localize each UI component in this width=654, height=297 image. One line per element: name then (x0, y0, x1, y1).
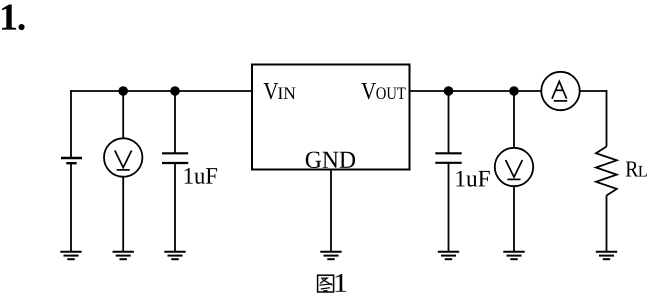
voltmeter V1 glyph V (115, 151, 132, 170)
node: input rail / capacitor C1 junction (170, 86, 180, 96)
capacitor C2 plates (435, 152, 461, 154)
ground (voltmeter V2) (503, 252, 524, 260)
resistor RL zigzag (596, 147, 617, 196)
pin label VIN (264, 83, 279, 99)
ground (capacitor C1) (164, 252, 185, 260)
problem number label "1." (2, 5, 16, 30)
wire: ammeter to top-right corner (581, 90, 608, 92)
ammeter A1 body (541, 72, 579, 110)
voltmeter V2 glyph V (506, 160, 523, 179)
value label 1uF (C1) (185, 168, 217, 184)
wire: resistor RL to ground (606, 196, 608, 253)
wire: capacitor C1 to ground (174, 163, 176, 252)
battery B1 wires (70, 90, 72, 157)
regulator U1 body (252, 65, 410, 170)
ammeter A1 glyph A (552, 81, 567, 101)
wire: main input rail (70, 90, 252, 92)
wire: junction to voltmeter V2 (513, 91, 515, 148)
node: output rail / capacitor C2 junction (444, 86, 454, 96)
voltmeter V2 body (495, 148, 533, 186)
wire: junction to capacitor C2 (448, 91, 450, 153)
wire: junction to voltmeter V1 (122, 91, 124, 138)
ground (resistor RL) (596, 252, 617, 260)
ground (regulator GND) (320, 252, 341, 260)
wire: corner down to resistor RL (606, 90, 608, 146)
node: input rail / voltmeter V1 junction (118, 86, 128, 96)
battery B1 plates (61, 157, 82, 159)
label RL (626, 161, 639, 176)
voltmeter V1 body (104, 138, 142, 176)
ground (voltmeter V1) (113, 252, 134, 260)
ground (capacitor C2) (438, 252, 459, 260)
wire: voltmeter V1 to ground (122, 177, 124, 252)
wire: GND pin to ground (330, 170, 332, 253)
caption text 1 (336, 274, 347, 292)
ground (battery) (60, 252, 81, 260)
node: output rail / voltmeter V2 junction (509, 86, 519, 96)
wire: junction to capacitor C1 (174, 91, 176, 153)
value label 1uF (C2) (456, 171, 489, 187)
pin label GND (306, 152, 355, 168)
capacitor C1 plates (162, 152, 188, 154)
caption character 图 (drawn) (318, 275, 334, 292)
wire: voltmeter V2 to ground (513, 187, 515, 252)
wire: capacitor C2 to ground (448, 163, 450, 252)
pin label VOUT (361, 83, 376, 99)
wire: output rail from regulator to ammeter (410, 90, 542, 92)
